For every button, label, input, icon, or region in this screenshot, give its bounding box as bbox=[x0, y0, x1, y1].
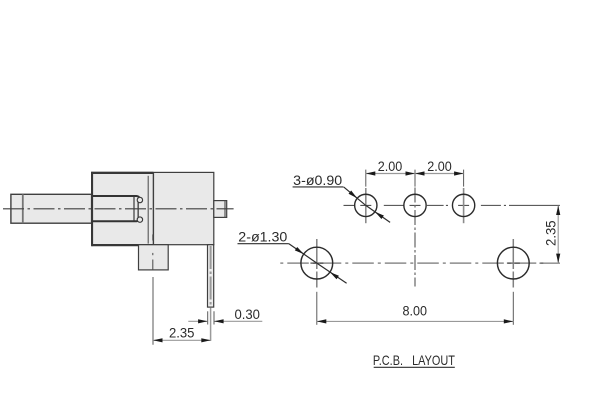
dimension 2.35 vertical line bbox=[557, 206, 559, 264]
arrow 2.35 right bbox=[201, 338, 211, 342]
svg-text:2.35: 2.35 bbox=[169, 325, 195, 341]
boss centerline extension bbox=[152, 277, 154, 345]
terminal pin bbox=[208, 245, 214, 307]
dimension 8.00 line bbox=[317, 320, 514, 322]
shaft slot top edge bbox=[92, 196, 139, 199]
arrow 8.00 left bbox=[317, 319, 327, 323]
extension line 2.35 bottom right bbox=[539, 262, 560, 264]
big hole 2 vertical centerline bbox=[512, 239, 514, 288]
arrow 8.00 right bbox=[504, 319, 514, 323]
leader arrow upper bbox=[349, 191, 359, 200]
front cap thick bottom edge bbox=[91, 244, 153, 246]
slot internal line bbox=[133, 197, 135, 221]
extension line pin left bbox=[207, 311, 209, 324]
title underline bbox=[374, 366, 455, 368]
front cap right edge bbox=[152, 172, 154, 244]
arrow 2.35 left bbox=[153, 338, 163, 342]
arrow 2.00 mid left-pointing bbox=[415, 171, 425, 175]
small hole 3 vertical centerline bbox=[463, 188, 465, 223]
switch body bbox=[92, 172, 214, 244]
small hole row horizontal centerline bbox=[344, 204, 560, 206]
big hole 2 center cross bbox=[507, 262, 520, 264]
body internal line bbox=[147, 176, 149, 244]
big hole row horizontal centerline bbox=[280, 262, 545, 264]
arrow 2.00 far left bbox=[366, 171, 376, 175]
shaft slot bottom edge bbox=[92, 218, 139, 221]
extension line hole1 top bbox=[365, 170, 367, 187]
big hole 1 bbox=[301, 247, 333, 279]
extension line hole3 top bbox=[463, 170, 465, 187]
svg-text:2.00: 2.00 bbox=[378, 158, 403, 174]
arrow 2.00 far right bbox=[454, 171, 464, 175]
svg-text:0.30: 0.30 bbox=[234, 306, 260, 322]
extension line hole2 top bbox=[414, 170, 416, 187]
slot corner detent bottom bbox=[137, 217, 142, 222]
dimension 0.30 line right bbox=[215, 320, 263, 322]
front cap thick left edge bbox=[91, 172, 93, 246]
dimension 2.00 line bbox=[366, 173, 464, 175]
svg-text:3-ø0.90: 3-ø0.90 bbox=[293, 172, 342, 188]
mounting boss below body bbox=[139, 245, 169, 270]
svg-text:2.00: 2.00 bbox=[427, 158, 452, 174]
central vertical axis bbox=[414, 188, 416, 287]
rear terminal protrusion bbox=[214, 201, 227, 218]
actuator shaft bbox=[11, 194, 92, 223]
pin centerline extension bbox=[210, 308, 212, 341]
pin centerline bbox=[210, 246, 212, 306]
shaft end line bbox=[22, 194, 24, 223]
slot end wall bbox=[137, 200, 139, 219]
arrow 2.00 mid right-pointing bbox=[406, 171, 416, 175]
slot corner detent top bbox=[137, 197, 142, 202]
svg-text:2-ø1.30: 2-ø1.30 bbox=[238, 229, 287, 245]
small hole 3 bbox=[452, 194, 474, 216]
front cap thick top edge bbox=[91, 172, 153, 174]
big hole 1 vertical centerline bbox=[316, 239, 318, 288]
big hole 1 center cross bbox=[310, 262, 323, 264]
horizontal centerline of side view bbox=[3, 208, 234, 210]
leader arrow lower bbox=[329, 270, 339, 279]
dimension 0.30 line left bbox=[188, 320, 207, 322]
leader 2-dia1.30 bbox=[289, 244, 347, 284]
arrow 2.35 top bbox=[556, 206, 560, 216]
extension line 8.00 left bbox=[316, 292, 318, 325]
small hole 2 bbox=[404, 194, 426, 216]
arrow 2.35 bottom bbox=[556, 254, 560, 264]
extension line 8.00 right bbox=[512, 292, 514, 325]
extension line pin right bbox=[213, 311, 215, 324]
leader 3-dia0.90 bbox=[344, 187, 390, 222]
leader arrow lower bbox=[374, 210, 384, 219]
label underline 3-dia0.90 bbox=[293, 186, 344, 188]
big hole 2 bbox=[497, 247, 529, 279]
small hole 1 bbox=[355, 194, 377, 216]
boss centerline bbox=[152, 234, 154, 240]
arrow 0.30 right bbox=[214, 319, 224, 323]
small hole 1 vertical centerline bbox=[365, 188, 367, 223]
arrow 0.30 left bbox=[198, 319, 208, 323]
svg-text:8.00: 8.00 bbox=[403, 303, 428, 319]
leader arrow upper bbox=[295, 247, 305, 256]
dimension 2.35 line (side view) bbox=[153, 339, 211, 341]
svg-text:2.35: 2.35 bbox=[542, 220, 558, 246]
protrusion end line bbox=[224, 201, 226, 218]
label underline 2-dia1.30 bbox=[238, 243, 289, 245]
svg-text:P.C.B. LAYOUT: P.C.B. LAYOUT bbox=[373, 352, 455, 368]
